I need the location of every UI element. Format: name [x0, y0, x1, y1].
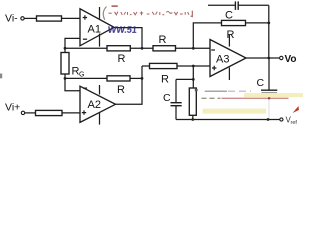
svg-text:A2: A2 [88, 99, 101, 111]
wire to A1 + [62, 17, 81, 19]
svg-text:A3: A3 [216, 54, 229, 66]
node Vo terminal [280, 56, 283, 59]
wire A1 output to junction [114, 28, 142, 49]
svg-text:R: R [161, 74, 169, 86]
capacitor C (A3+ filter) [163, 79, 182, 119]
op-amp A2 [80, 86, 116, 122]
resistor R (A3 feedback) [222, 20, 246, 25]
node A2 feedback junction [64, 77, 67, 80]
wire A3 feedback riser [193, 23, 221, 48]
node A1 feedback junction [64, 47, 67, 50]
svg-text:Vi+: Vi+ [5, 102, 20, 114]
svg-text:ref: ref [291, 120, 298, 125]
svg-text:Vi-: Vi- [5, 13, 18, 25]
watermark: dark red crossing dot [268, 97, 270, 99]
wire feedback right edge down to output [268, 5, 270, 58]
node Vi- input terminal [5, 13, 37, 25]
A3 power pin top [228, 35, 230, 47]
wire A3 output [246, 57, 279, 59]
watermark: red arrow cursor [293, 106, 299, 113]
wire bottom rail [176, 119, 280, 121]
svg-text:WW.51: WW.51 [107, 25, 137, 35]
A1 power pin bottom [99, 34, 101, 47]
capacitor C (output, to rail) [257, 58, 278, 120]
op-amp A1 [80, 9, 114, 46]
watermark: olive dashes before pink line [202, 97, 221, 99]
wire A2 output up to R row [116, 66, 143, 104]
resistor (Vi- series) [37, 16, 62, 21]
A2 power pin top [99, 85, 101, 95]
watermark: pink line [222, 97, 289, 99]
watermark: gray underline dashes [195, 89, 198, 92]
watermark: yellow stripe B [203, 109, 267, 114]
resistor R (A1 feedback) [107, 46, 130, 51]
node A2 output node [141, 77, 144, 80]
svg-text:R: R [117, 84, 125, 96]
wire [246, 22, 269, 24]
wire [24, 17, 36, 19]
wire [130, 77, 142, 79]
node feedback/output corner [267, 22, 270, 25]
watermark: yellow stripe A [244, 93, 303, 97]
wire A3+ filter branch [192, 66, 194, 79]
wire to A3 inverting input [176, 47, 211, 49]
watermark: red text band top [102, 3, 197, 20]
wire top bus left [65, 47, 107, 49]
svg-text:Vo: Vo [285, 54, 297, 65]
A2 power pin bottom [99, 113, 101, 125]
node Vref terminal [280, 118, 283, 121]
resistor R (A2 feedback) [107, 76, 130, 81]
capacitor C (A3 feedback) [208, 1, 269, 21]
wire bottom bus left [65, 77, 107, 79]
svg-text:R: R [227, 29, 235, 41]
op-amp A3 [210, 40, 246, 77]
wire [130, 47, 153, 49]
resistor R (A2 to A3) [150, 63, 178, 68]
resistor (Vi+ series) [36, 110, 63, 115]
wire A2 inverting input [65, 78, 80, 90]
wire A1 inverting input [65, 38, 80, 48]
A1 power pin top [99, 7, 101, 19]
wire to A2 + [62, 112, 80, 114]
stray mark left margin [0, 74, 2, 79]
svg-text:C: C [225, 10, 233, 22]
svg-text:R: R [118, 53, 126, 65]
node A1 output node [141, 47, 144, 50]
wire A2-to-A3 row [142, 65, 150, 67]
resistor (A3+ filter, vertical) [189, 79, 196, 119]
A3 power pin bottom [228, 68, 230, 81]
node A3 inverting node [192, 47, 195, 50]
resistor RG [61, 48, 84, 78]
svg-text:R: R [159, 34, 167, 46]
wire to A3 non-inverting input [177, 65, 210, 67]
node output junction [267, 57, 270, 60]
svg-text:C: C [257, 77, 265, 89]
svg-text:G: G [79, 72, 84, 79]
node A3 non-inverting node [192, 65, 195, 68]
svg-text:C: C [163, 92, 171, 104]
resistor R (A1 to A3) [153, 46, 176, 51]
node Vi+ input terminal [5, 102, 36, 115]
wire [25, 112, 36, 114]
